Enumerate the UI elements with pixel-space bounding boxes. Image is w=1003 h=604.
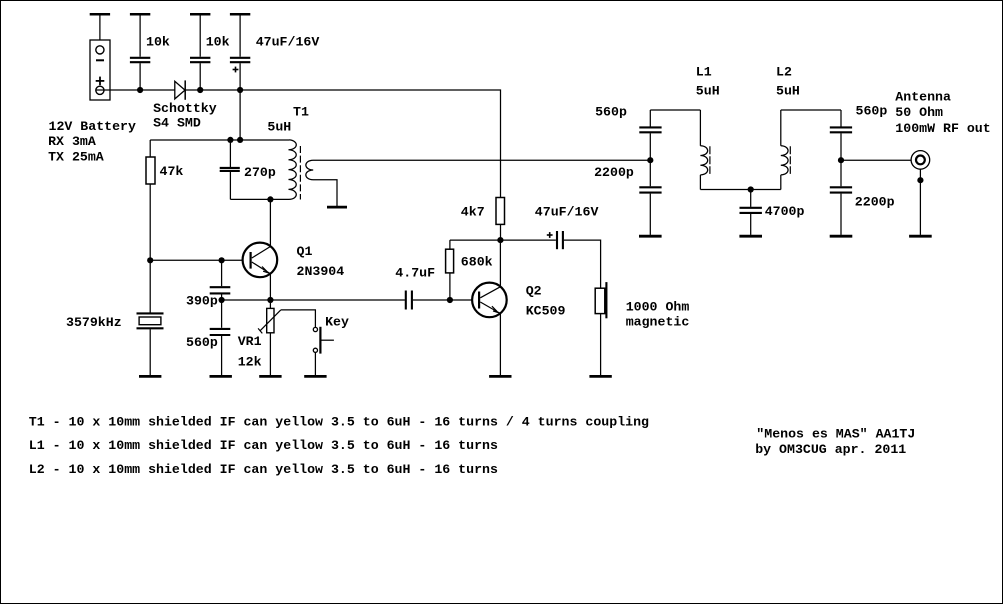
node dot filter input (647, 157, 653, 163)
node dot T1 top (237, 137, 243, 143)
svg-text:2N3904: 2N3904 (297, 264, 345, 279)
capacitor 47uF/16V (output) (547, 231, 563, 249)
ground crystal (139, 375, 161, 378)
svg-text:L1 - 10 x 10mm shielded IF can: L1 - 10 x 10mm shielded IF can yellow 3.… (29, 438, 498, 453)
svg-text:12k: 12k (238, 355, 262, 370)
wire battery plus to diode (96, 89, 175, 91)
ground earphone (589, 375, 611, 378)
wire C3 top stub (239, 15, 241, 57)
svg-text:270p: 270p (244, 165, 276, 180)
wire C2 top stub (199, 15, 201, 57)
wire diode cathode to 4k7 corner (185, 90, 500, 198)
capacitor 560p (input) (639, 127, 661, 132)
wire 4700p drop (750, 190, 752, 207)
ground key (304, 375, 326, 378)
svg-text:S4 SMD: S4 SMD (153, 116, 201, 131)
node dot rail C2 (197, 87, 203, 93)
wire 4700p to ground (750, 214, 752, 235)
node dot filter output (838, 157, 844, 163)
wire Q2 collector drop (499, 240, 501, 287)
svg-text:L1: L1 (696, 65, 712, 80)
svg-text:560p: 560p (186, 335, 218, 350)
capacitor 390p (210, 287, 231, 293)
capacitor 10k (second) (190, 58, 210, 90)
ground 2200p output (830, 235, 853, 238)
wire 47k bottom to crystal node (149, 184, 151, 260)
wire 560p output riser (840, 110, 842, 127)
svg-text:47k: 47k (160, 164, 184, 179)
wire 2200p output to ground (840, 194, 842, 235)
node dot Q2 base (447, 297, 453, 303)
capacitor 270p (220, 168, 240, 171)
top rail bar (battery minus) (90, 13, 110, 16)
wire Q1 collector (269, 199, 271, 247)
wire T1 secondary bottom to ground (313, 180, 337, 206)
svg-text:5uH: 5uH (776, 84, 800, 99)
antenna connector (911, 151, 930, 170)
svg-text:4k7: 4k7 (461, 205, 485, 220)
svg-text:1000 Ohm: 1000 Ohm (626, 299, 690, 314)
wire battery top stub (99, 15, 101, 54)
wire 560p to ground (221, 336, 223, 375)
capacitor 10k (first) (130, 58, 150, 90)
capacitor 560p (Q1) (210, 329, 231, 335)
wire 390p drop (221, 260, 223, 286)
node dot 390p-560p junction (219, 297, 225, 303)
wire 560p input riser (649, 110, 651, 127)
capacitor 2200p (input) (639, 187, 661, 192)
wire base node horizontal (150, 259, 243, 261)
transistor Q2 (472, 283, 507, 318)
svg-text:680k: 680k (461, 254, 493, 269)
ground Q2 emitter (489, 375, 511, 378)
svg-text:3579kHz: 3579kHz (66, 315, 122, 330)
earphone 1000 Ohm magnetic (595, 282, 606, 318)
wire T1 secondary top to filter (313, 159, 650, 161)
svg-text:T1: T1 (293, 104, 309, 119)
wire 4.7uF to Q2 base (413, 299, 472, 301)
resistor 680k (446, 249, 454, 273)
svg-text:4700p: 4700p (765, 204, 805, 219)
svg-text:Antenna: Antenna (895, 90, 951, 105)
capacitor 4700p (740, 208, 762, 213)
svg-text:390p: 390p (186, 293, 218, 308)
svg-text:RX 3mA: RX 3mA (48, 134, 96, 149)
wire 2200p to ground (649, 194, 651, 235)
node dot antenna shield (917, 177, 923, 183)
svg-text:by OM3CUG apr. 2011: by OM3CUG apr. 2011 (755, 442, 906, 457)
svg-text:2200p: 2200p (855, 194, 895, 209)
wire rail drop to T1 node (239, 90, 241, 140)
top rail bar C2 (190, 13, 210, 16)
svg-text:Schottky: Schottky (153, 101, 217, 116)
wire filter bottom (700, 189, 780, 191)
node dot Q2 collector (497, 237, 503, 243)
wire Q2 emitter to ground (499, 313, 501, 375)
svg-text:L2: L2 (776, 65, 792, 80)
inductor L1 (700, 110, 710, 190)
capacitor 560p (output) (830, 127, 852, 132)
wire 270p top drop (229, 140, 231, 167)
svg-text:560p: 560p (856, 104, 888, 119)
top rail bar C1 (130, 13, 150, 16)
node dot Q1 emitter (267, 297, 273, 303)
svg-text:Q2: Q2 (526, 283, 542, 298)
svg-text:100mW RF out: 100mW RF out (895, 121, 990, 136)
inductor L2 (781, 110, 791, 190)
ground antenna (909, 235, 932, 238)
svg-text:T1 - 10 x 10mm shielded IF can: T1 - 10 x 10mm shielded IF can yellow 3.… (29, 414, 649, 429)
wire 680k bottom to base node (449, 273, 451, 300)
transformer T1 primary winding (289, 140, 297, 200)
svg-text:Q1: Q1 (297, 244, 313, 259)
wire collector node horizontal (450, 239, 556, 241)
wire crystal drop (149, 260, 151, 312)
svg-text:Key: Key (325, 315, 349, 330)
key switch (313, 327, 334, 354)
svg-text:4.7uF: 4.7uF (395, 265, 435, 280)
ground T1 secondary (327, 206, 347, 209)
node dot 270p top (227, 137, 233, 143)
wire VR1 to ground (269, 333, 271, 375)
potentiometer VR1 (258, 308, 281, 333)
wire T1 primary bottom (230, 198, 289, 200)
svg-text:10k: 10k (206, 34, 230, 49)
ground 560p (210, 375, 232, 378)
resistor 47k (146, 157, 155, 184)
wire Q1 emitter drop (269, 274, 271, 309)
capacitor 47uF/16V (top) (230, 58, 250, 90)
wire earphone to ground (600, 314, 602, 376)
wire crystal to ground (149, 329, 151, 375)
transistor Q1 (243, 243, 278, 278)
svg-text:560p: 560p (595, 105, 627, 120)
node dot 4700p (748, 186, 754, 192)
wire 560p to node (649, 133, 651, 186)
svg-text:"Menos es MAS" AA1TJ: "Menos es MAS" AA1TJ (756, 427, 915, 442)
node dot Q1 collector (267, 196, 273, 202)
wire 270p bottom drop (229, 172, 231, 200)
wire C1 top stub (139, 15, 141, 57)
wire 47k top stub (149, 140, 151, 157)
transformer T1 core (dashed) (299, 146, 301, 200)
svg-text:47uF/16V: 47uF/16V (256, 34, 320, 49)
wire VR1 wiper to key (281, 310, 316, 327)
svg-text:10k: 10k (146, 34, 170, 49)
wire emitter node horizontal (222, 299, 405, 301)
capacitor 4.7uF (406, 291, 412, 310)
transformer T1 secondary winding (306, 160, 313, 180)
node dot crystal top (147, 257, 153, 263)
ground 2200p input (639, 235, 662, 238)
svg-text:5uH: 5uH (696, 84, 720, 99)
wire 560p output to node (840, 133, 842, 186)
wire key to ground (314, 352, 316, 375)
wire filter top 2 (781, 109, 841, 111)
svg-text:KC509: KC509 (526, 304, 566, 319)
wire 47uF to earphone (564, 240, 601, 288)
ground VR1 (259, 375, 281, 378)
svg-text:2200p: 2200p (594, 165, 634, 180)
top rail bar C3 (230, 13, 250, 16)
svg-text:50 Ohm: 50 Ohm (895, 105, 943, 120)
svg-text:L2 - 10 x 10mm shielded IF can: L2 - 10 x 10mm shielded IF can yellow 3.… (29, 462, 498, 477)
wire filter top 1 (650, 109, 700, 111)
node dot 390p top (219, 257, 225, 263)
node dot rail C1 (137, 87, 143, 93)
ground 4700p (739, 235, 762, 238)
svg-text:VR1: VR1 (238, 334, 262, 349)
svg-text:47uF/16V: 47uF/16V (535, 205, 599, 220)
node dot rail C3 (237, 87, 243, 93)
crystal X1 3579kHz (137, 313, 164, 328)
svg-text:magnetic: magnetic (626, 315, 690, 330)
wire antenna shield to ground (919, 169, 921, 235)
wire 12V node horizontal (47k top to T1 primary top) (150, 139, 289, 141)
wire 680k top drop (449, 240, 451, 249)
svg-text:12V Battery: 12V Battery (49, 119, 137, 134)
wire 390p to 560p (221, 294, 223, 327)
wire output to antenna (841, 159, 911, 161)
capacitor 2200p (output) (830, 187, 852, 192)
resistor 4k7 (496, 198, 505, 225)
diode D1 Schottky (175, 80, 185, 99)
battery BT1 (90, 40, 110, 100)
svg-text:TX 25mA: TX 25mA (48, 149, 104, 164)
wire 4k7 bottom to collector node (500, 224, 502, 240)
svg-text:5uH: 5uH (267, 120, 291, 135)
